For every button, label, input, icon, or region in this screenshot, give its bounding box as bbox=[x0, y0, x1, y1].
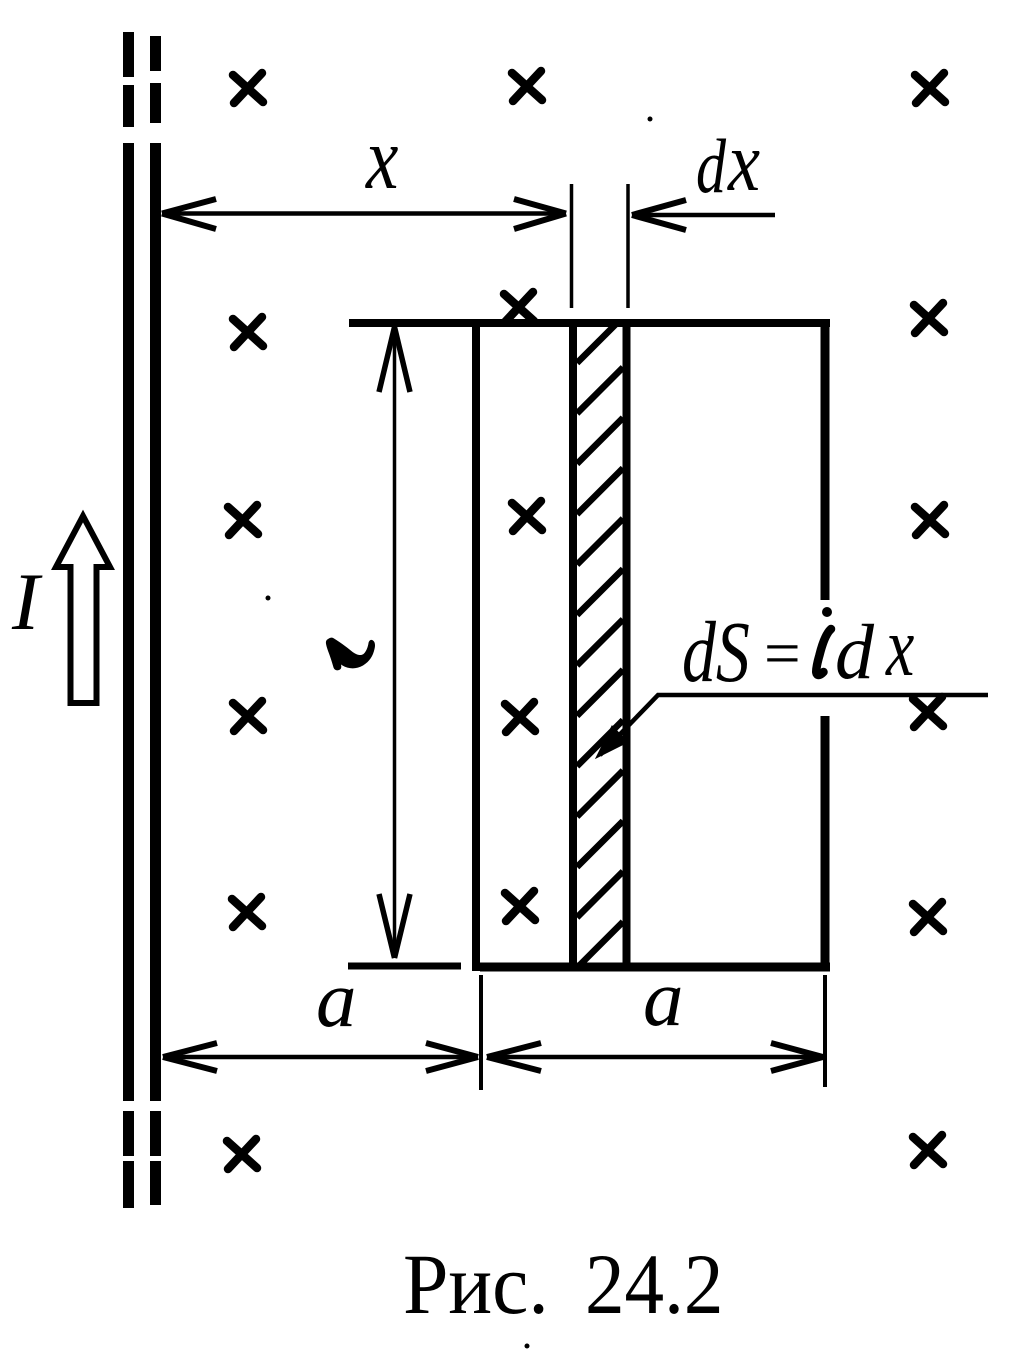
svg-text:x: x bbox=[365, 108, 398, 208]
svg-text:a: a bbox=[316, 954, 357, 1044]
svg-text:x: x bbox=[885, 600, 914, 694]
svg-text:d: d bbox=[696, 123, 726, 209]
svg-text:d: d bbox=[835, 608, 875, 695]
svg-text:24.2: 24.2 bbox=[585, 1236, 723, 1332]
svg-text:x: x bbox=[727, 116, 760, 210]
svg-text:=: = bbox=[764, 618, 801, 690]
svg-text:I: I bbox=[11, 556, 43, 647]
svg-text:a: a bbox=[643, 953, 684, 1043]
svg-text:dS: dS bbox=[682, 603, 750, 700]
svg-text:Рис.: Рис. bbox=[403, 1237, 549, 1332]
